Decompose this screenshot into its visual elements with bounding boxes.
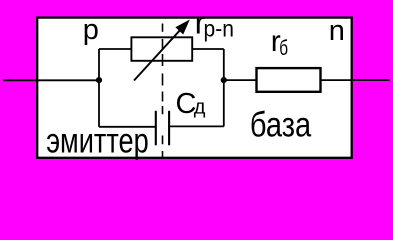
label r_b xyxy=(271,25,288,60)
resistor r_b xyxy=(257,68,321,92)
wire right branch vertical xyxy=(223,49,225,126)
svg-text:б: б xyxy=(279,37,288,60)
svg-text:база: база xyxy=(250,106,312,145)
wire to r_p-n left xyxy=(99,48,131,50)
device outline box xyxy=(37,18,352,158)
wire from r_p-n right xyxy=(192,48,224,50)
svg-text:n: n xyxy=(329,15,345,47)
resistor r_p-n xyxy=(131,37,192,61)
svg-text:эмиттер: эмиттер xyxy=(46,122,149,161)
wire base lead xyxy=(321,79,390,81)
wire to C_d left xyxy=(99,126,156,128)
junction boundary dashed line xyxy=(162,24,164,158)
label r_p-n xyxy=(195,5,234,42)
variable arrow of r_p-n xyxy=(134,20,190,81)
svg-text:д: д xyxy=(194,97,206,119)
node base-side junction xyxy=(221,77,227,83)
svg-text:p-n: p-n xyxy=(204,15,234,41)
label C_d xyxy=(176,88,206,120)
wire node to r_b xyxy=(224,79,257,81)
capacitor C_d xyxy=(156,111,169,146)
svg-text:p: p xyxy=(83,14,99,46)
wire left branch vertical xyxy=(98,49,100,127)
node emitter-side junction xyxy=(96,77,102,83)
wire from C_d right xyxy=(169,125,224,127)
wire emitter lead xyxy=(3,79,99,81)
